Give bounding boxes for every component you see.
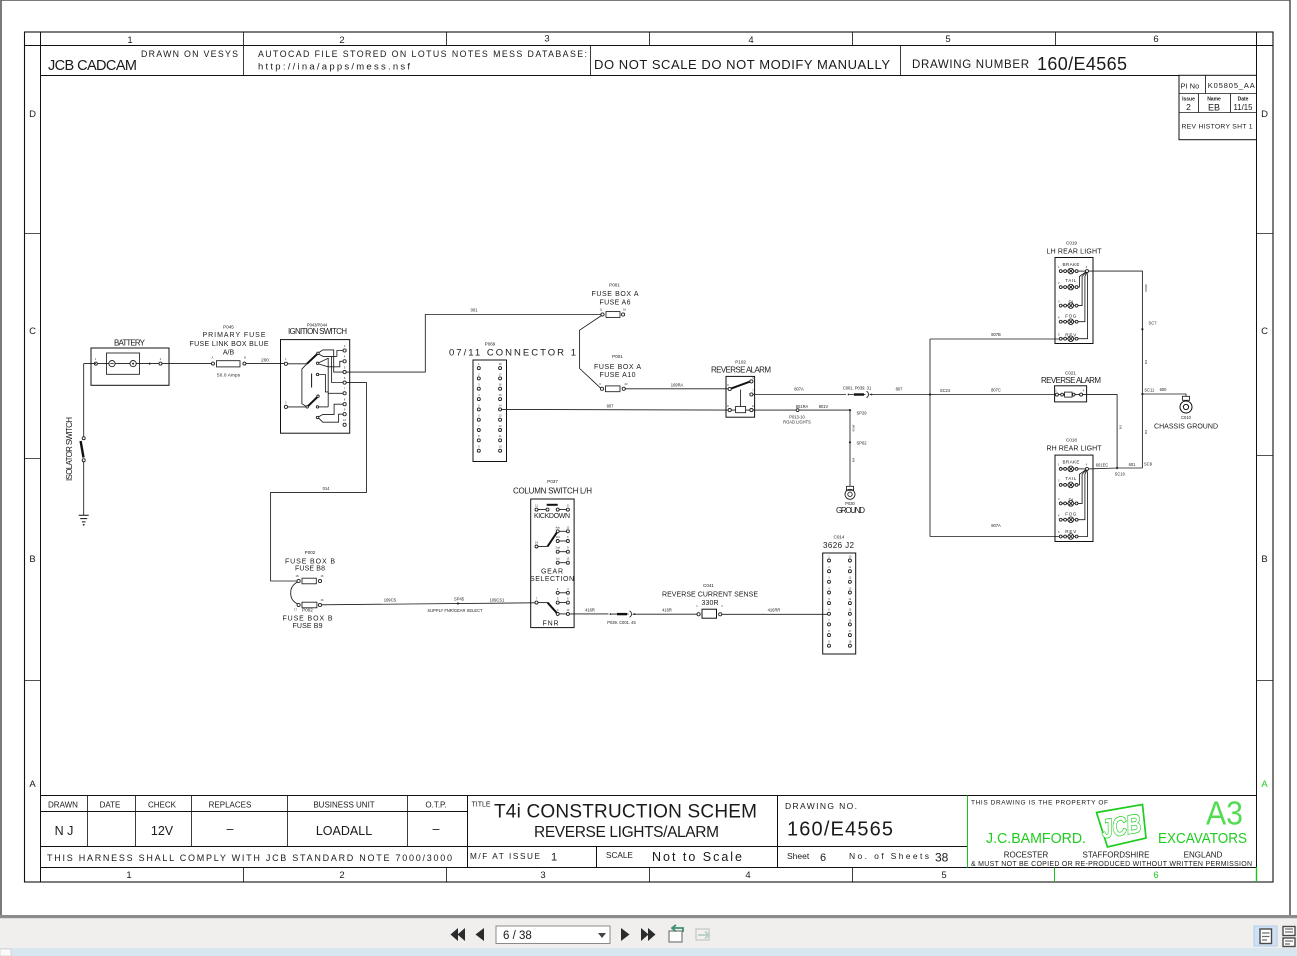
ignition internal: v2 to pin6 (332, 356, 343, 382)
inline connector P039 C001 45 (610, 613, 612, 615)
svg-text:602: 602 (1144, 429, 1148, 434)
svg-text:ROCESTER: ROCESTER (1004, 851, 1049, 860)
connector 1 pins left (477, 362, 480, 452)
svg-text:6: 6 (1153, 34, 1158, 45)
svg-text:P102: P102 (735, 360, 746, 365)
wire fuse A6 to fuse A10 jog (580, 316, 602, 388)
svg-text:K05805_AA: K05805_AA (1208, 81, 1255, 90)
bottom zone divider 5/6 (green) (1054, 868, 1056, 883)
header cell dividers (244, 46, 901, 76)
svg-text:200: 200 (261, 358, 269, 363)
svg-text:C018: C018 (1066, 438, 1077, 443)
battery plus terminal (130, 361, 136, 367)
svg-text:807: 807 (896, 387, 904, 392)
svg-text:CHECK: CHECK (148, 801, 177, 810)
toolbar previous-view icon (green) (669, 925, 683, 942)
ignition internal: circle5 upper path to pin8 (319, 404, 343, 417)
svg-text:FOG: FOG (1065, 314, 1076, 319)
svg-text:P001: P001 (612, 354, 623, 359)
svg-text:D: D (29, 109, 36, 120)
row letters left (29, 109, 36, 790)
svg-text:C041: C041 (703, 583, 714, 588)
wire LH brake pin to vertical (1089, 271, 1143, 468)
svg-text:ENGLAND: ENGLAND (1184, 851, 1223, 860)
svg-text:FUSE LINK BOX BLUE: FUSE LINK BOX BLUE (190, 341, 269, 348)
svg-text:6: 6 (820, 852, 826, 864)
J2 pins left (828, 554, 831, 647)
ignition internal: contact circle 2 (316, 362, 318, 364)
svg-text:FUSE BOX A: FUSE BOX A (592, 291, 639, 298)
svg-text:2nd: 2nd (556, 546, 561, 550)
svg-text:160/E4565: 160/E4565 (1037, 54, 1127, 74)
svg-text:807B: 807B (991, 332, 1001, 337)
svg-text:SC11: SC11 (1144, 388, 1155, 393)
svg-text:& MUST NOT BE COPIED OR RE-PRO: & MUST NOT BE COPIED OR RE-PRODUCED WITH… (971, 861, 1252, 868)
svg-text:6: 6 (1153, 870, 1158, 881)
P102 coil stub to pin8/pin10 (731, 409, 750, 411)
ignition internal: left bracket (302, 364, 307, 407)
isolator switch blade (81, 441, 84, 458)
bottom zone right divider (green) (1256, 867, 1258, 882)
toolbar last-page button (641, 928, 656, 941)
svg-text:AUTOCAD FILE STORED ON LOTUS N: AUTOCAD FILE STORED ON LOTUS NOTES MESS … (258, 49, 587, 59)
LH lamp row DI (1058, 272, 1086, 308)
battery inner box (107, 353, 140, 374)
bottom-left white corner box (0, 949, 11, 956)
combobox dropdown arrow (598, 933, 606, 938)
wire SP29 to ground P030 (849, 410, 851, 486)
svg-text:REVERSE LIGHTS/ALARM: REVERSE LIGHTS/ALARM (534, 824, 719, 841)
svg-text:C021: C021 (1065, 371, 1076, 376)
battery minus terminal (109, 361, 115, 367)
svg-text:P001: P001 (609, 283, 620, 288)
svg-text:2: 2 (339, 870, 344, 881)
svg-text:TITLE: TITLE (472, 802, 491, 809)
node SC10 (1116, 467, 1118, 469)
svg-text:LOADALL: LOADALL (316, 824, 372, 838)
fuse B8 (297, 579, 300, 582)
fuse B9 (297, 603, 300, 606)
RH lamp row DI (1058, 470, 1086, 506)
resistor 330R (697, 613, 700, 616)
ignition internal: pin1 stub (288, 363, 307, 365)
svg-text:T4i CONSTRUCTION SCHEM: T4i CONSTRUCTION SCHEM (494, 802, 757, 823)
top zone numbers (127, 34, 1158, 47)
J2 pins right (848, 554, 851, 647)
svg-text:A/B: A/B (223, 350, 235, 357)
wire 109RA fuse A10 to reverse alarm (625, 388, 728, 390)
wire C021 out to drop (1083, 395, 1118, 468)
svg-text:DATE: DATE (100, 801, 121, 810)
title block left table dividers (88, 796, 408, 847)
svg-text:50.0 Amps: 50.0 Amps (217, 373, 241, 378)
svg-text:FUSE A6: FUSE A6 (600, 300, 631, 307)
svg-text:DO NOT SCALE DO NOT MODIFY MAN: DO NOT SCALE DO NOT MODIFY MANUALLY (594, 57, 890, 72)
wire 109CS fuse B9 to column switch (322, 603, 535, 605)
wire battery to primary fuse (162, 363, 212, 365)
column switch box (531, 499, 574, 628)
svg-text:REV HISTORY SHT 1: REV HISTORY SHT 1 (1182, 123, 1253, 130)
ignition internal: blade 2 (308, 397, 318, 406)
svg-text:IGNITION SWITCH: IGNITION SWITCH (288, 327, 347, 336)
ignition internal: circle4 stub to v1 (319, 406, 329, 408)
svg-text:STAFFORDSHIRE: STAFFORDSHIRE (1083, 851, 1150, 860)
svg-text:801V: 801V (819, 404, 829, 409)
svg-text:P039. C001. 45: P039. C001. 45 (607, 620, 636, 625)
svg-text:EB: EB (1208, 103, 1220, 113)
wire 807 connector1 to reverse alarm (502, 408, 728, 411)
ignition internal: blade1 upper chevron to pin5 path (319, 350, 343, 372)
svg-text:001: 001 (471, 308, 479, 313)
svg-text:330R: 330R (702, 600, 719, 607)
svg-text:12V: 12V (151, 824, 174, 838)
svg-text:P002: P002 (305, 550, 316, 555)
P102 pin 10 (750, 409, 753, 412)
svg-text:FUSE A10: FUSE A10 (600, 372, 636, 379)
svg-text:C014: C014 (834, 535, 845, 540)
svg-text:2: 2 (1186, 102, 1191, 112)
ignition pin 2 (284, 405, 287, 408)
P102 pin 6 (728, 387, 731, 390)
RH rear light box (1055, 455, 1093, 541)
connector 1 pins right (499, 362, 502, 452)
svg-text:GROUND: GROUND (836, 506, 865, 515)
svg-text:–: – (433, 822, 440, 836)
gear selector common pin 14 (535, 545, 538, 548)
svg-text:60308: 60308 (1144, 284, 1148, 292)
continuous-view button (1283, 927, 1295, 947)
svg-text:–: – (227, 822, 234, 836)
wire 416RR to J2 (722, 613, 828, 615)
svg-text:THIS DRAWING IS THE PROPERTY O: THIS DRAWING IS THE PROPERTY OF (971, 800, 1108, 807)
LH lamp row FOG (1058, 272, 1087, 324)
wire isolator to ground (83, 462, 85, 515)
toolbar top shadow (0, 915, 1297, 918)
node SC7 (1141, 328, 1143, 330)
svg-text:5: 5 (945, 34, 950, 45)
svg-text:CHASSIS GROUND: CHASSIS GROUND (1154, 424, 1218, 431)
svg-text:DRAWING NUMBER: DRAWING NUMBER (912, 59, 1029, 71)
svg-text:B: B (29, 554, 35, 565)
svg-text:SC7: SC7 (1149, 321, 1158, 326)
wire B8 to B9 loop (291, 582, 298, 604)
battery pin 4 (159, 362, 162, 365)
svg-text:1st: 1st (556, 557, 560, 561)
ignition internal: circle2 lower line to pin4 (319, 361, 343, 367)
ignition internal: contact circle 3 (316, 373, 318, 375)
svg-text:1: 1 (127, 35, 132, 46)
svg-text:807: 807 (607, 404, 615, 409)
reverse alarm P102 box (726, 376, 755, 417)
toolbar next-view icon (disabled) (696, 929, 709, 940)
svg-text:BATTERY: BATTERY (114, 339, 146, 348)
svg-text:N J: N J (55, 824, 74, 838)
kickdown bar (547, 504, 558, 506)
node SP62 (849, 441, 851, 443)
svg-text:LH REAR LIGHT: LH REAR LIGHT (1047, 249, 1103, 256)
wire 200 primary fuse to ignition (246, 363, 285, 365)
svg-text:REPLACES: REPLACES (209, 801, 252, 810)
svg-text:Adv: Adv (555, 525, 560, 529)
RH lamp row FOG (1058, 470, 1087, 523)
svg-text:014: 014 (323, 486, 331, 491)
svg-text:A: A (212, 356, 214, 360)
svg-text:603: 603 (1144, 359, 1148, 364)
ignition internal: key barrel bar (311, 374, 313, 388)
title block outline lines (41, 796, 1257, 868)
top zone-number band line (25, 45, 1274, 47)
svg-text:COLUMN SWITCH L/H: COLUMN SWITCH L/H (513, 487, 592, 496)
svg-text:BRAKE: BRAKE (1063, 262, 1080, 267)
svg-text:C010: C010 (1181, 415, 1192, 420)
row letter ticks right (1257, 234, 1274, 681)
svg-text:A: A (29, 779, 36, 790)
ground symbol (isolator) (79, 515, 89, 522)
svg-text:SC10: SC10 (1115, 472, 1126, 477)
svg-text:3: 3 (540, 870, 545, 881)
svg-text:B: B (244, 356, 246, 360)
svg-text:SUPPLY FNR/GEAR SELECT: SUPPLY FNR/GEAR SELECT (427, 608, 483, 613)
svg-text:THIS HARNESS SHALL COMPLY WITH: THIS HARNESS SHALL COMPLY WITH JCB STAND… (47, 853, 452, 863)
ignition internal: v1 tee to pin7 (328, 392, 343, 394)
svg-text:1: 1 (551, 852, 557, 864)
svg-text:DRAWN: DRAWN (48, 801, 78, 810)
fuse A10 (600, 387, 603, 390)
svg-text:SC24: SC24 (940, 388, 951, 393)
ignition internal: arrow contact circle 5 (316, 416, 318, 418)
P102 pin 8 (728, 409, 731, 412)
svg-text:416RR: 416RR (768, 608, 781, 613)
LH rear light box (1055, 258, 1093, 344)
svg-text:GEAR: GEAR (541, 569, 563, 576)
ignition internal: pin3 link (337, 351, 343, 357)
row letters right (1261, 109, 1268, 790)
toolbar prev-page button (476, 928, 485, 941)
gear selection rows (555, 525, 569, 564)
LH lamp row REV (1058, 273, 1088, 342)
bottom zone band line (41, 867, 1257, 869)
svg-text:601: 601 (1129, 462, 1137, 467)
svg-text:109RA: 109RA (671, 382, 684, 387)
fnr blade (548, 603, 558, 614)
svg-text:SELECTION: SELECTION (530, 576, 574, 583)
svg-text:EXCAVATORS: EXCAVATORS (1158, 831, 1247, 847)
bottom blue strip (0, 948, 1297, 956)
bottom zone dividers (244, 868, 853, 883)
JCB property box left border (green) (967, 796, 969, 868)
primary fuse F1 (212, 362, 215, 365)
kickdown contacts (535, 508, 538, 511)
ignition right pins 3-10 (343, 344, 347, 427)
svg-text:6 / 38: 6 / 38 (503, 930, 532, 942)
svg-text:FUSE BOX A: FUSE BOX A (594, 364, 641, 371)
connector 1 box (473, 360, 507, 462)
svg-text:109CS1: 109CS1 (490, 598, 506, 603)
top zone dividers (244, 32, 1056, 46)
svg-text:600: 600 (1160, 387, 1168, 392)
JCB logo (green) (1097, 805, 1147, 848)
svg-text:FUSE B8: FUSE B8 (295, 566, 325, 573)
svg-text:601: 601 (1119, 424, 1123, 429)
ignition internal: pin2 stub (288, 406, 306, 408)
toolbar next-page button (621, 928, 630, 941)
svg-text:D: D (1261, 109, 1268, 120)
svg-text:BUSINESS UNIT: BUSINESS UNIT (313, 801, 374, 810)
wire 601EC RH brake pin out (1089, 467, 1143, 470)
ignition internal: blade1 lower chevron (319, 354, 337, 356)
svg-text:TAIL: TAIL (1065, 278, 1076, 283)
svg-text:C001. P039. 31: C001. P039. 31 (843, 385, 872, 390)
svg-text:SC9: SC9 (1144, 462, 1153, 467)
svg-text:1: 1 (126, 870, 131, 881)
C021 pins and sounder (1055, 393, 1058, 396)
toolbar page combobox (496, 926, 610, 944)
ground P030 symbol (847, 486, 854, 490)
svg-text:JCB CADCAM: JCB CADCAM (48, 58, 137, 74)
P102 actuator line (740, 390, 742, 407)
svg-text:REV: REV (1065, 529, 1077, 534)
svg-text:3: 3 (544, 34, 549, 45)
RH lamp row BRAKE (1058, 460, 1089, 472)
node SP29 (849, 409, 851, 411)
svg-text:J.C.BAMFORD.: J.C.BAMFORD. (986, 831, 1086, 847)
wire 416R fnr out (569, 613, 608, 615)
connector P013-10 road lights (796, 409, 799, 412)
svg-text:FUSE BOX B: FUSE BOX B (285, 559, 335, 566)
svg-text:416R: 416R (585, 608, 595, 613)
svg-text:11/15: 11/15 (1234, 103, 1254, 112)
ignition pin 1 (284, 362, 287, 365)
svg-text:A: A (1261, 779, 1268, 790)
svg-text:807A: 807A (794, 387, 804, 392)
node SP45 (457, 602, 459, 604)
ignition internal: blade 1 (307, 354, 317, 364)
wire 801RA P102 pin10 out (753, 409, 850, 411)
svg-text:5: 5 (941, 870, 946, 881)
svg-text:Name: Name (1207, 96, 1221, 102)
svg-text:416R: 416R (662, 608, 672, 613)
svg-text:A3: A3 (1206, 795, 1243, 832)
svg-text:REVERSE ALARM: REVERSE ALARM (1041, 376, 1101, 385)
svg-text:P037: P037 (547, 479, 558, 484)
svg-text:DRAWING NO.: DRAWING NO. (785, 801, 857, 811)
left table values (55, 822, 440, 838)
battery internal dot (149, 363, 151, 365)
ignition internal: contact circle 4 (316, 406, 318, 408)
svg-text:FUSE BOX B: FUSE BOX B (283, 616, 333, 623)
svg-text:601W: 601W (852, 424, 856, 431)
svg-text:B: B (1261, 554, 1267, 565)
P102 relay blade (731, 382, 750, 389)
svg-text:2: 2 (339, 35, 344, 46)
P102 coil box (736, 406, 746, 412)
wire 001 ignition pin5 riser (346, 315, 601, 373)
svg-text:807A: 807A (991, 523, 1001, 528)
battery outer box (91, 348, 169, 385)
battery pin 1 (94, 362, 97, 365)
left table headers (48, 801, 447, 810)
svg-text:P045: P045 (223, 325, 234, 330)
svg-text:FOG: FOG (1065, 512, 1076, 517)
svg-text:3rd: 3rd (556, 535, 560, 539)
bottom zone numbers (126, 870, 1158, 881)
svg-text:M/F AT ISSUE: M/F AT ISSUE (470, 852, 541, 861)
isolator switch contacts (82, 437, 85, 440)
svg-text:PI No: PI No (1181, 82, 1200, 91)
svg-text:Date: Date (1238, 96, 1249, 102)
chassis ground C010 symbol (1182, 396, 1189, 400)
svg-text:807C: 807C (991, 388, 1001, 393)
gear selector blade (548, 532, 558, 546)
svg-text:FNR: FNR (543, 621, 559, 628)
svg-text:38: 38 (935, 851, 949, 865)
P102 pin 9 (750, 380, 753, 383)
reverse alarm C021 box (1055, 386, 1087, 402)
svg-text:DRAWN ON VESYS: DRAWN ON VESYS (141, 49, 238, 59)
svg-text:4: 4 (748, 35, 753, 46)
battery internal wires (97, 363, 159, 365)
svg-text:Sheet: Sheet (787, 851, 810, 861)
svg-text:P002: P002 (302, 608, 313, 613)
svg-text:SP45: SP45 (454, 597, 465, 602)
toolbar first-page button (451, 928, 466, 941)
wire 807A P102 pin7 out (753, 394, 846, 396)
svg-text:TAIL: TAIL (1065, 476, 1076, 481)
rocester staffordshire england (1004, 851, 1223, 860)
svg-text:BRAKE: BRAKE (1063, 460, 1080, 465)
svg-text:O.T.P.: O.T.P. (425, 801, 446, 810)
ignition internal: circle3 drop (319, 375, 328, 392)
svg-text:SCALE: SCALE (606, 851, 633, 860)
P102 pin 7 (750, 393, 753, 396)
toolbar band (0, 918, 1297, 948)
wire 014 ignition pin6 to fuse B8 (271, 383, 367, 581)
LH lamp row TAIL (1058, 272, 1086, 290)
ignition switch U1 box (281, 340, 350, 434)
svg-text:KICKDOWN: KICKDOWN (534, 513, 570, 520)
svg-text:C: C (29, 326, 36, 337)
wire battery to isolator drop (84, 364, 96, 437)
svg-text:4: 4 (745, 870, 750, 881)
svg-text:PRIMARY FUSE: PRIMARY FUSE (203, 332, 266, 339)
svg-text:109CS: 109CS (384, 598, 397, 603)
svg-text:RH REAR LIGHT: RH REAR LIGHT (1047, 446, 1103, 453)
RH lamp row REV (1058, 470, 1088, 539)
svg-text:C019: C019 (1066, 241, 1077, 246)
node SC24 (929, 393, 931, 395)
wire 807C SC24 to C021 (930, 394, 1055, 396)
svg-text:SP29: SP29 (856, 411, 867, 416)
svg-text:REVERSE CURRENT SENSE: REVERSE CURRENT SENSE (662, 592, 758, 599)
fnr rows (556, 587, 570, 616)
svg-text:ISOLATOR SWITCH: ISOLATOR SWITCH (65, 417, 74, 481)
svg-text:FUSE B9: FUSE B9 (293, 623, 323, 630)
fuse A6 (601, 313, 604, 316)
wire SC11 to chassis ground (1142, 394, 1186, 396)
fnr common pin 7 (535, 601, 538, 604)
svg-text:609: 609 (852, 457, 856, 462)
svg-text:601EC: 601EC (1096, 462, 1109, 467)
svg-text:C: C (1261, 326, 1268, 337)
svg-text:P069: P069 (485, 342, 496, 347)
wire 807B/807A left loop (930, 339, 1059, 537)
svg-text:REVERSE ALARM: REVERSE ALARM (711, 366, 771, 375)
row letter ticks left (25, 234, 41, 681)
LH lamp row BRAKE (1058, 262, 1089, 274)
ignition internal: circle2 upper line to v1 (319, 358, 329, 407)
header band bottom line (41, 75, 1257, 77)
svg-text:160/E4565: 160/E4565 (787, 819, 893, 841)
